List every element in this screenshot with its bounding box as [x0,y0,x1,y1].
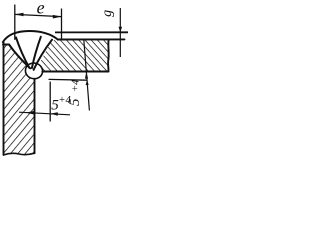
svg-text:g: g [100,10,115,17]
svg-text:5: 5 [67,98,83,106]
svg-text:+4: +4 [70,79,81,92]
svg-text:e: e [37,0,45,18]
